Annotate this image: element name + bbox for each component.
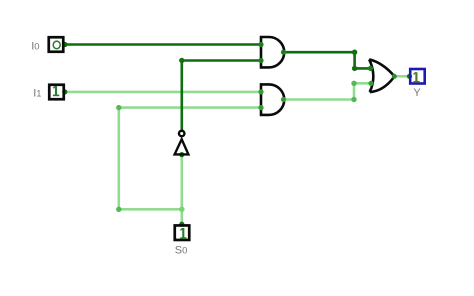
node I0 output dot bbox=[62, 42, 67, 47]
node OR output dot bbox=[392, 74, 397, 79]
node corner left-top bbox=[116, 105, 121, 110]
node corner left-bottom bbox=[116, 207, 121, 212]
node corner AND1-out 1 bbox=[352, 50, 357, 55]
wire S0 branch: junction left, up, right to AND2 input B bbox=[119, 108, 261, 210]
node AND1 output dot bbox=[281, 50, 286, 55]
input I1 box bbox=[49, 85, 64, 100]
or-gate U3 body bbox=[369, 59, 373, 92]
output Y value 1 bbox=[413, 72, 419, 82]
svg-text:I1: I1 bbox=[33, 88, 41, 100]
not-gate U4 bubble bbox=[179, 131, 185, 137]
node AND2 output dot bbox=[281, 97, 286, 102]
node AND2 input dots bbox=[258, 89, 263, 94]
node corner AND2-out 2 bbox=[351, 81, 356, 86]
node OR input dots bbox=[368, 66, 373, 71]
output Y box bbox=[410, 69, 425, 84]
input I0 box bbox=[49, 37, 64, 52]
node NOT input dot bbox=[179, 152, 184, 157]
not-gate U4 triangle bbox=[175, 139, 189, 154]
wire I0 to AND1 input A bbox=[65, 43, 261, 46]
wire AND2 output to OR input B bbox=[284, 83, 372, 99]
node corner NOT-AND1 bbox=[179, 58, 184, 63]
node corner AND1-out 2 bbox=[352, 66, 357, 71]
node Y input dot bbox=[407, 74, 412, 79]
node S0 output dot bbox=[179, 222, 184, 227]
input I0 value 0 bbox=[53, 41, 60, 49]
svg-text:S0: S0 bbox=[175, 244, 188, 256]
svg-text:Y: Y bbox=[413, 87, 421, 99]
input I1 value 1 bbox=[53, 86, 59, 95]
wire S0 up to NOT input bbox=[181, 155, 184, 225]
node junction S0 branch bbox=[179, 207, 185, 213]
wire OR output to Y bbox=[394, 75, 409, 78]
svg-text:I0: I0 bbox=[31, 41, 39, 53]
wire NOT output up and right to AND1 input B bbox=[182, 61, 261, 131]
input S0 box bbox=[175, 225, 190, 240]
node I1 output dot bbox=[62, 89, 67, 94]
and-gate U2 body bbox=[261, 84, 284, 115]
node corner AND2-out 1 bbox=[351, 97, 356, 102]
and-gate U1 body bbox=[261, 37, 284, 67]
wire AND1 output to OR input A bbox=[284, 52, 371, 68]
wire I1 to AND2 input A bbox=[65, 91, 261, 94]
input S0 value 1 bbox=[180, 228, 186, 238]
node AND1 input dots bbox=[258, 42, 263, 47]
